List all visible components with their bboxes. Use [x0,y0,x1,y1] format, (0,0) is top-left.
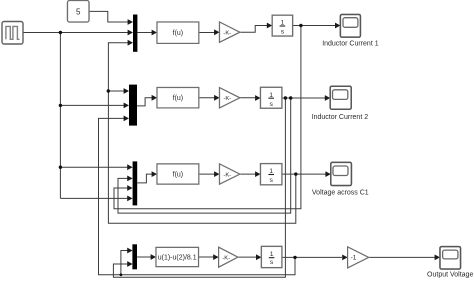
svg-text:-K-: -K- [222,255,230,261]
svg-text:Output Voltage: Output Voltage [427,272,473,279]
svg-text:-K-: -K- [223,96,231,102]
svg-text:f(u): f(u) [173,95,184,102]
svg-text:Inductor Current 1: Inductor Current 1 [322,41,379,48]
svg-text:s: s [270,259,274,266]
svg-text:f(u): f(u) [173,172,184,179]
svg-text:u(1)-u(2)/8.1: u(1)-u(2)/8.1 [158,254,197,261]
svg-text:-K-: -K- [223,172,231,178]
svg-text:Inductor Current 2: Inductor Current 2 [312,114,369,121]
svg-text:1: 1 [270,251,274,258]
svg-text:s: s [269,177,273,184]
svg-text:s: s [269,101,273,108]
svg-text:5: 5 [76,8,81,17]
svg-text:-K-: -K- [223,30,231,36]
svg-text:Voltage across C1: Voltage across C1 [312,190,369,197]
svg-text:f(u): f(u) [173,30,184,37]
svg-text:s: s [281,29,285,36]
svg-text:-1: -1 [351,255,357,262]
